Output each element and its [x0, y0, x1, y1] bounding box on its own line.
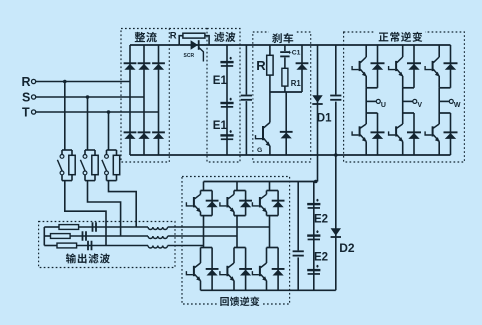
feedback dc capacitor wire — [297, 182, 299, 291]
filter inductor row 3 — [148, 246, 168, 248]
feedback leg 1 bottom IGBT emitter wire — [200, 281, 202, 291]
rectifier top diode 1 — [124, 62, 137, 70]
junction dot feedback bus / D1 line — [314, 180, 318, 184]
feedback leg 3 top freewheel diode — [272, 200, 285, 208]
feedback leg 3 top IGBT collector wire — [266, 191, 268, 195]
terminal S circle — [31, 95, 35, 99]
feedback leg 1 bottom IGBT collector wire — [200, 248, 202, 264]
label E2 upper — [314, 213, 328, 225]
normal inverter leg 2 output tap wire — [403, 100, 413, 102]
filter row 2 wire mid — [70, 235, 148, 237]
normal inverter leg 1 bottom hat wire — [366, 112, 377, 114]
normal inverter leg 3 output tap wire — [439, 100, 449, 102]
normal inverter leg 3 bottom diode wire — [450, 113, 452, 155]
label zhengliu (rectifier) — [132, 31, 161, 43]
normal inverter leg 1 top IGBT collector wire — [365, 45, 367, 57]
filter row 3 wire right — [168, 245, 204, 247]
label lvbo (filter) — [212, 31, 239, 43]
feedback leg 3 mid vertical wire — [269, 216, 271, 248]
filter block dashed box (lv-bo) — [207, 29, 240, 163]
normal inverter leg 1 top freewheel diode — [371, 62, 385, 70]
filter row 1 wire right — [168, 226, 270, 228]
label E1 lower — [213, 120, 228, 132]
output terminal U circle — [376, 99, 380, 103]
wire stub right of charge resistor — [205, 36, 209, 45]
feedback leg 2 mid bar wire — [234, 215, 246, 217]
filter damping resistor row 3 — [57, 243, 77, 248]
feedback leg 2 bottom hat wire — [234, 247, 246, 249]
normal inverter leg 2 bottom hat wire — [403, 112, 414, 114]
diode D1 — [312, 95, 322, 105]
normal inverter leg 1 bottom IGBT emitter wire — [365, 141, 367, 155]
normal inverter top bus wire — [344, 44, 451, 46]
feedback leg 2 bottom IGBT — [220, 263, 235, 281]
dc-link capacitor (right) wire — [335, 45, 337, 155]
wire phase R — [36, 81, 130, 83]
normal inverter leg 2 bottom diode wire — [413, 113, 415, 155]
diode D2 — [331, 228, 341, 238]
feedback leg 1 top IGBT emitter wire — [200, 212, 202, 216]
feedback leg 2 top stub wire — [236, 182, 238, 191]
label E2 lower — [314, 252, 328, 264]
filter series capacitor row 3 — [87, 241, 92, 251]
feedback leg 3 top diode wire — [277, 191, 279, 216]
normal inverter leg 3 top diode wire — [450, 45, 452, 88]
terminal R circle — [31, 79, 35, 83]
feedback leg 2 bottom diode wire — [245, 248, 247, 291]
normal inverter leg 1 mid vertical wire — [365, 88, 367, 113]
svg-text:R: R — [256, 58, 266, 73]
electrolytic capacitor E2 upper — [307, 199, 320, 209]
feedback leg 3 bottom IGBT — [252, 263, 267, 281]
feedback leg 1 lower mid vertical wire — [203, 247, 205, 249]
label U — [381, 102, 386, 109]
brake diode branch wire — [301, 45, 303, 92]
normal inverter leg 3 bottom IGBT collector wire — [438, 113, 440, 124]
normal inverter leg 1 top IGBT — [352, 57, 367, 77]
rectifier leg 3 wire — [158, 45, 160, 155]
wire from switch 2 to filter row — [88, 181, 121, 236]
feedback leg 3 bottom IGBT emitter wire — [266, 281, 268, 291]
feedback leg 3 top stub wire — [269, 182, 271, 191]
feedback leg 3 top hat wire — [267, 190, 279, 192]
E1 chain wire — [226, 45, 228, 155]
brake snubber resistor R1 — [282, 68, 288, 86]
normal inverter leg 2 top IGBT emitter wire — [402, 76, 404, 88]
wire stub left of charge resistor — [179, 36, 183, 45]
feedback leg 1 top IGBT collector wire — [200, 191, 202, 195]
feedback leg 1 bottom hat wire — [201, 247, 213, 249]
svg-text:E2: E2 — [314, 252, 328, 264]
feedback leg 3 bottom freewheel diode — [272, 268, 285, 276]
normal inverter leg 3 bottom IGBT emitter wire — [438, 141, 440, 155]
brake IGBT emitter wire — [269, 146, 271, 155]
normal inverter leg 3 bottom hat wire — [439, 112, 450, 114]
label R (brake) — [256, 58, 266, 73]
svg-text:SCR: SCR — [184, 53, 195, 59]
feedback leg 3 mid bar wire — [267, 215, 279, 217]
svg-text:D2: D2 — [339, 241, 355, 255]
label shache (brake) — [269, 31, 296, 43]
normal inverter leg 2 mid bar wire — [403, 87, 414, 89]
normal inverter leg 1 output tap wire — [366, 100, 376, 102]
brake IGBT Q — [256, 123, 271, 147]
normal inverter leg 2 mid vertical wire — [402, 88, 404, 113]
rectifier top diode 3 — [152, 62, 165, 70]
normal inverter leg 2 top IGBT — [389, 57, 404, 77]
feedback inverter top bus wire — [204, 181, 318, 183]
svg-text:E1: E1 — [213, 120, 228, 132]
wire phase T — [36, 111, 159, 113]
brake snubber capacitor C1 — [280, 51, 290, 57]
feedback leg 2 top hat wire — [234, 190, 246, 192]
filter row 3 wire mid — [77, 245, 148, 247]
wire from switch 3 to filter row — [109, 181, 137, 227]
normal inverter leg 3 bottom IGBT — [425, 124, 440, 142]
normal inverter leg 2 top IGBT collector wire — [402, 45, 404, 57]
normal inverter leg 3 top IGBT collector wire — [438, 45, 440, 57]
feedback leg 1 mid vertical wire — [203, 216, 205, 248]
dc-link capacitor (right) — [330, 95, 343, 102]
label E1 upper — [213, 75, 228, 87]
charge resistor R — [183, 33, 205, 38]
feedback inverter bottom bus wire — [201, 289, 336, 291]
feedback leg 1 bottom IGBT — [186, 263, 201, 281]
svg-text:T: T — [22, 106, 30, 120]
normal inverter leg 2 bottom freewheel diode — [407, 131, 421, 139]
normal inverter leg 1 mid bar wire — [366, 87, 377, 89]
wire phase S — [36, 96, 144, 98]
feedback leg 3 top IGBT — [252, 194, 267, 212]
feedback leg 1 top IGBT — [186, 194, 201, 212]
label R — [22, 75, 31, 89]
label S — [22, 91, 30, 105]
brake resistor R — [267, 55, 273, 75]
junction dot bottom bus / D2 feeder — [334, 153, 338, 157]
electrolytic capacitor E1 bottom — [220, 130, 233, 140]
feedback leg 1 bottom freewheel diode — [206, 268, 219, 276]
svg-text:G: G — [257, 147, 262, 154]
feedback leg 2 lower mid vertical wire — [236, 247, 238, 249]
filter star-point bar wire — [43, 227, 45, 246]
rectifier bottom bus wire — [130, 154, 344, 156]
rectifier top diode 2 — [138, 62, 151, 70]
normal inverter leg 2 bottom IGBT — [389, 124, 404, 142]
label R (charge resistor) — [170, 31, 177, 42]
feedback leg 2 bottom IGBT emitter wire — [233, 281, 235, 291]
label R1 — [291, 79, 302, 88]
svg-text:R1: R1 — [291, 79, 302, 88]
brake freewheel diode — [280, 131, 293, 139]
wire from switch 1 to filter row — [65, 181, 106, 246]
svg-text:+C1: +C1 — [288, 50, 301, 57]
brake return diode — [296, 62, 309, 70]
svg-text:S: S — [22, 91, 30, 105]
svg-text:U: U — [381, 102, 386, 109]
svg-text:E2: E2 — [314, 213, 328, 225]
normal inverter leg 2 top diode wire — [413, 45, 415, 88]
normal inverter leg 3 top freewheel diode — [444, 62, 458, 70]
svg-text:R: R — [170, 31, 177, 42]
rectifier bottom diode 2 — [138, 131, 151, 139]
rectifier leg 1 wire — [129, 45, 131, 155]
feedback leg 2 top IGBT collector wire — [233, 191, 235, 195]
normal inverter leg 3 top IGBT — [425, 57, 440, 77]
label W — [454, 102, 461, 109]
feedback leg 3 bottom IGBT collector wire — [266, 248, 268, 264]
feedback leg 3 lower mid vertical wire — [269, 247, 271, 249]
filter inductor row 1 — [148, 227, 168, 229]
electrolytic capacitor E1 middle — [220, 98, 233, 108]
label SCR — [184, 53, 195, 59]
feedback leg 2 top IGBT — [220, 194, 235, 212]
soft-start contactor switch 1 with bypass resistor — [57, 80, 75, 181]
rectifier block dashed box (zheng-liu) — [121, 29, 169, 163]
filter series capacitor row 1 — [92, 222, 97, 232]
terminal T circle — [31, 110, 35, 114]
soft-start contactor switch 3 with bypass resistor — [102, 110, 120, 180]
normal inverter leg 3 mid vertical wire — [438, 88, 440, 113]
normal inverter leg 2 bottom IGBT emitter wire — [402, 141, 404, 155]
normal inverter leg 2 top freewheel diode — [407, 62, 421, 70]
normal inverter leg 1 top IGBT emitter wire — [365, 76, 367, 88]
feedback leg 3 top IGBT emitter wire — [266, 212, 268, 216]
feedback leg 1 top stub wire — [203, 182, 205, 191]
output terminal V circle — [413, 99, 417, 103]
feedback leg 2 top freewheel diode — [239, 200, 252, 208]
brake node bar wire — [270, 91, 302, 93]
filter row 3 wire left — [44, 245, 57, 247]
SCR bypass thyristor — [191, 40, 204, 61]
feedback leg 2 bottom IGBT collector wire — [233, 248, 235, 264]
filter inductor row 2 — [148, 236, 168, 238]
feedback leg 1 top freewheel diode — [206, 200, 219, 208]
filter series capacitor row 2 — [82, 231, 87, 241]
normal inverter dashed box (zheng-chang-ni-bian) — [344, 32, 465, 162]
filter row 1 wire left — [44, 226, 59, 228]
normal inverter leg 1 bottom IGBT — [352, 124, 367, 142]
svg-text:E1: E1 — [213, 75, 228, 87]
label shuchu lvbo (output filter) — [63, 253, 112, 265]
feedback inverter dashed box (hui-kui-ni-bian) — [182, 177, 290, 305]
filter row 2 wire right — [168, 235, 237, 237]
normal inverter leg 1 bottom IGBT collector wire — [365, 113, 367, 124]
feedback leg 3 bottom hat wire — [267, 247, 279, 249]
svg-text:V: V — [417, 102, 422, 109]
label T — [22, 106, 30, 120]
svg-text:D1: D1 — [317, 113, 332, 125]
filter row 1 wire mid — [79, 226, 148, 228]
feedback leg 2 bottom freewheel diode — [239, 268, 252, 276]
dc-link capacitor wire (left) — [245, 45, 247, 155]
label huikui nibian (feedback inverter) — [217, 296, 262, 308]
feedback leg 2 top IGBT emitter wire — [233, 212, 235, 216]
wire top bus through SCR — [179, 44, 343, 46]
soft-start contactor switch 2 with bypass resistor — [80, 95, 98, 180]
output terminal W circle — [449, 99, 453, 103]
electrolytic capacitor E1 upper — [220, 57, 233, 67]
brake IGBT collector wire — [269, 92, 271, 123]
normal inverter leg 3 top IGBT emitter wire — [438, 76, 440, 88]
top dashed edge over soft-start resistor section — [169, 28, 207, 30]
normal inverter leg 2 bottom IGBT collector wire — [402, 113, 404, 124]
brake freewheel diode wire — [285, 92, 287, 155]
feedback leg 1 top hat wire — [201, 190, 213, 192]
feedback dc capacitor — [292, 250, 305, 257]
normal inverter leg 3 bottom freewheel diode — [444, 131, 458, 139]
filter row 2 wire left — [44, 235, 50, 237]
brake resistor branch wire — [269, 45, 271, 92]
normal inverter leg 1 bottom diode wire — [377, 113, 379, 155]
svg-text:W: W — [454, 102, 461, 109]
label V — [417, 102, 422, 109]
brake snubber branch wire — [284, 45, 286, 92]
rectifier leg 2 wire — [143, 45, 145, 155]
normal inverter leg 3 mid bar wire — [439, 87, 450, 89]
diode D2 wire — [335, 155, 337, 290]
normal inverter leg 1 top diode wire — [377, 45, 379, 88]
rectifier bottom diode 3 — [152, 131, 165, 139]
filter damping resistor row 1 — [59, 225, 79, 230]
normal inverter leg 1 bottom freewheel diode — [371, 131, 385, 139]
label D2 — [339, 241, 355, 255]
feedback leg 3 bottom diode wire — [277, 248, 279, 291]
normal inverter bottom bus wire — [344, 154, 451, 156]
feedback leg 1 bottom diode wire — [211, 248, 213, 291]
E2 chain wire — [313, 182, 315, 291]
filter damping resistor row 2 — [51, 234, 71, 239]
label D1 — [317, 113, 332, 125]
feedback leg 2 mid vertical wire — [236, 216, 238, 248]
label zhengchang nibian (normal inverter) — [375, 31, 425, 43]
electrolytic capacitor E2 bottom — [307, 265, 320, 275]
rectifier top bus wire — [130, 44, 179, 46]
label +C1 — [288, 50, 301, 57]
electrolytic capacitor E2 middle — [307, 230, 320, 240]
dc-link capacitor (left) — [241, 95, 253, 102]
label G (gate) — [257, 147, 262, 154]
feedback leg 2 top diode wire — [245, 191, 247, 216]
feedback leg 1 top diode wire — [211, 191, 213, 216]
brake block dashed box (sha-che) — [253, 32, 311, 162]
output filter dashed box (shu-chu-lv-bo) — [39, 222, 175, 268]
rectifier bottom diode 1 — [124, 131, 137, 139]
diode D1 wire — [317, 45, 319, 182]
feedback leg 1 mid bar wire — [201, 215, 213, 217]
svg-text:R: R — [22, 75, 31, 89]
